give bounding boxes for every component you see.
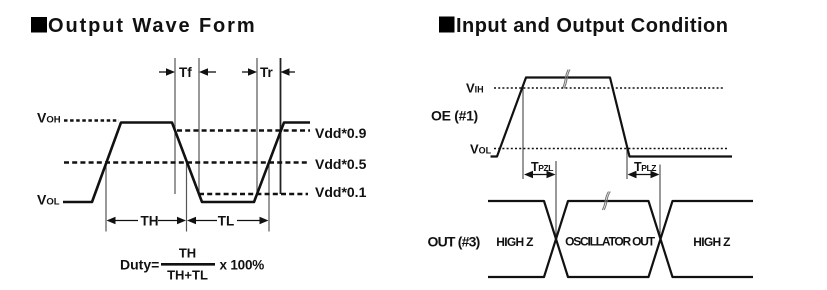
- svg-text:OSCILLATOR OUT: OSCILLATOR OUT: [565, 235, 656, 249]
- svg-text:Tr: Tr: [260, 65, 274, 80]
- svg-text:HIGH Z: HIGH Z: [693, 235, 730, 249]
- svg-text:Input and Output Condition: Input and Output Condition: [456, 15, 728, 37]
- svg-text:Tf: Tf: [179, 65, 192, 80]
- svg-text:Duty=: Duty=: [120, 257, 159, 273]
- svg-text:TPZL: TPZL: [531, 160, 553, 174]
- svg-text:TL: TL: [218, 214, 235, 229]
- svg-text:Vdd*0.1: Vdd*0.1: [315, 184, 367, 200]
- svg-text:TH: TH: [179, 246, 196, 261]
- svg-text:Output Wave Form: Output Wave Form: [48, 15, 257, 37]
- svg-text:TH+TL: TH+TL: [167, 268, 208, 283]
- svg-text:TH: TH: [141, 214, 159, 229]
- svg-text:Vdd*0.5: Vdd*0.5: [315, 156, 367, 172]
- svg-text:OUT (#3): OUT (#3): [428, 234, 480, 250]
- svg-text:Vdd*0.9: Vdd*0.9: [315, 125, 367, 141]
- svg-text:HIGH Z: HIGH Z: [496, 235, 533, 249]
- svg-text:x 100%: x 100%: [220, 258, 265, 273]
- svg-text:OE (#1): OE (#1): [431, 108, 478, 124]
